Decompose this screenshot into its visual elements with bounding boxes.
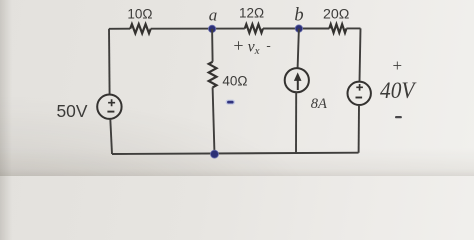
svg-text:+: + xyxy=(233,36,243,56)
svg-text:20Ω: 20Ω xyxy=(323,6,349,22)
svg-text:40V: 40V xyxy=(380,78,417,103)
wire right (40V source down to bottom corner) xyxy=(358,105,360,153)
svg-text:b: b xyxy=(294,6,303,26)
wire bottom xyxy=(112,153,359,154)
resistor R4 40ohm xyxy=(209,62,217,88)
svg-text:12Ω: 12Ω xyxy=(239,5,264,20)
wire middle (40-ohm down to bottom node) xyxy=(213,87,215,154)
svg-text:10Ω: 10Ω xyxy=(127,7,152,22)
resistor R1 10ohm xyxy=(130,24,151,33)
svg-text:+: + xyxy=(393,56,403,75)
voltage source V1 50V xyxy=(97,95,121,119)
node b xyxy=(295,25,302,32)
wire middle (node a down to 40-ohm) xyxy=(211,29,214,62)
wire (node b down to current source) xyxy=(298,29,299,69)
annotation blue minus below 40-ohm xyxy=(226,100,235,105)
node junction bottom xyxy=(211,150,219,158)
resistor R2 12ohm xyxy=(245,24,263,33)
wire right (top corner down to 40V source) xyxy=(360,28,361,81)
label 40V polarity minus xyxy=(395,116,402,118)
svg-text:vx: vx xyxy=(248,38,260,57)
resistor R3 20ohm xyxy=(329,24,346,33)
svg-text:-: - xyxy=(266,38,270,53)
wire top (10-ohm to 12-ohm through node a) xyxy=(151,28,245,30)
wire top (12-ohm to 20-ohm through node b) xyxy=(263,28,329,30)
wire top right (20-ohm to right corner) xyxy=(346,27,360,29)
wire top (left corner to 10-ohm) xyxy=(109,28,130,30)
svg-text:a: a xyxy=(209,6,218,25)
svg-text:8A: 8A xyxy=(311,96,327,112)
svg-text:40Ω: 40Ω xyxy=(222,74,247,89)
wire left (50V source down to bottom corner) xyxy=(110,119,112,154)
voltage source V2 40V xyxy=(348,82,371,105)
wire (current source down to bottom wire) xyxy=(295,92,297,153)
node a xyxy=(208,25,215,32)
svg-text:50V: 50V xyxy=(57,101,88,121)
wire left (top corner down to 50V source) xyxy=(108,29,111,95)
current source I1 8A xyxy=(285,68,309,92)
